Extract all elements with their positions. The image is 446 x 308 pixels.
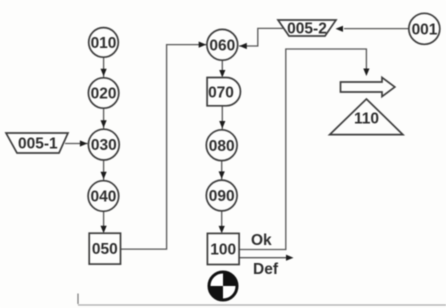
- svg-text:110: 110: [354, 111, 379, 128]
- svg-text:Ok: Ok: [251, 232, 272, 249]
- svg-text:Def: Def: [253, 261, 279, 278]
- svg-text:080: 080: [209, 138, 235, 155]
- svg-text:050: 050: [92, 241, 118, 258]
- svg-text:100: 100: [210, 242, 236, 259]
- svg-text:010: 010: [91, 35, 117, 52]
- svg-text:030: 030: [91, 137, 117, 154]
- svg-text:005-2: 005-2: [287, 21, 327, 38]
- svg-text:070: 070: [208, 84, 234, 101]
- svg-text:060: 060: [209, 37, 235, 54]
- svg-text:005-1: 005-1: [18, 136, 58, 153]
- svg-text:040: 040: [90, 189, 116, 206]
- svg-text:090: 090: [209, 188, 235, 205]
- svg-text:020: 020: [91, 86, 117, 103]
- svg-text:001: 001: [412, 21, 438, 38]
